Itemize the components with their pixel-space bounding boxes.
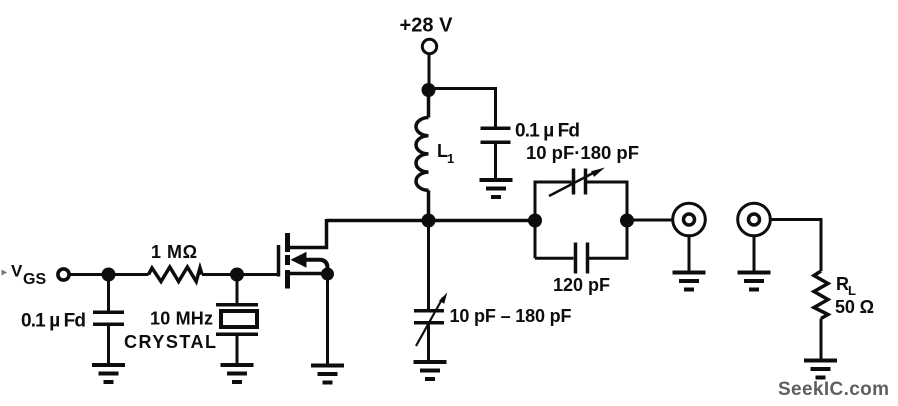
svg-text:SeekIC.com: SeekIC.com: [778, 379, 889, 400]
svg-text:50 Ω: 50 Ω: [835, 297, 874, 317]
ground (bypass capacitor): [480, 180, 513, 197]
crystal Y1 10 MHz: [216, 275, 258, 364]
svg-text:0.1 µ Fd: 0.1 µ Fd: [515, 121, 580, 142]
capacitor 0.1 µFd input: [93, 275, 124, 364]
connector J2 load side: [738, 203, 771, 271]
wire J2 to RL: [770, 220, 821, 272]
watermark SeekIC.com: [778, 379, 889, 400]
connector J1 coax output: [673, 203, 706, 271]
wire node to R1: [109, 273, 149, 276]
svg-text:10 pF·180 pF: 10 pF·180 pF: [526, 142, 639, 163]
label +28 V supply: [400, 15, 454, 37]
node gate junction: [230, 268, 244, 282]
ground (input capacitor): [92, 365, 125, 382]
wire gate lead: [237, 273, 277, 276]
ground (J2): [738, 273, 771, 290]
label 0.1 µFd (bypass): [515, 121, 580, 142]
label VGS input: [11, 262, 46, 289]
label 50 Ω: [835, 297, 874, 317]
capacitor 120 pF: [576, 243, 588, 274]
node input junction: [102, 268, 116, 282]
capacitor 10 pF-180 pF (tune, variable): [414, 293, 447, 361]
node network right junction: [620, 214, 634, 228]
svg-text:10 MHz: 10 MHz: [150, 309, 213, 329]
svg-text:10 pF – 180 pF: 10 pF – 180 pF: [450, 306, 572, 326]
wire source to ground: [326, 274, 329, 364]
node source junction: [321, 268, 334, 281]
terminal VGS: [58, 269, 69, 280]
svg-text:+28 V: +28 V: [400, 15, 454, 37]
input mark: [2, 270, 8, 276]
label 0.1 µFd (input): [21, 311, 86, 332]
node network left junction: [528, 214, 542, 228]
wire input terminal to node: [70, 273, 104, 276]
svg-text:1: 1: [447, 151, 454, 166]
wire main rail: [327, 219, 536, 223]
wire network loop: [535, 182, 627, 258]
resistor RL: [814, 271, 828, 359]
ground (RL): [804, 361, 837, 378]
svg-text:V: V: [11, 262, 23, 281]
resistor R1 1 MΩ: [149, 267, 203, 282]
wire node to bypass capacitor: [429, 89, 496, 128]
label 10 MHz: [150, 309, 213, 329]
terminal +28 V: [422, 39, 436, 53]
transistor Q1 MOSFET: [279, 219, 328, 289]
label 1 MΩ: [151, 242, 197, 262]
wire supply terminal to node: [428, 54, 431, 87]
node drain junction: [422, 214, 436, 228]
capacitor 10 pF-180 pF (output, variable): [549, 168, 605, 197]
svg-text:120 pF: 120 pF: [553, 275, 610, 295]
label L1: [437, 141, 454, 166]
label CRYSTAL: [124, 332, 216, 352]
label 10 pF – 180 pF: [450, 306, 572, 326]
node L1 top junction: [422, 83, 436, 97]
svg-text:0.1 µ Fd: 0.1 µ Fd: [21, 311, 86, 332]
capacitor 0.1 µFd supply bypass: [481, 128, 511, 179]
svg-text:GS: GS: [23, 271, 46, 288]
inductor L1: [416, 90, 429, 221]
ground (crystal): [221, 365, 254, 382]
label RL: [836, 274, 856, 298]
svg-text:1 MΩ: 1 MΩ: [151, 242, 197, 262]
ground (source): [311, 366, 344, 383]
wire R1 to gate node: [202, 273, 232, 276]
ground (tune capacitor): [414, 362, 447, 379]
wire to output connector: [627, 219, 673, 222]
wire drain node to tune capacitor: [427, 221, 430, 310]
ground (J1): [673, 273, 706, 290]
label 120 pF: [553, 275, 610, 295]
svg-text:L: L: [848, 283, 856, 298]
svg-text:CRYSTAL: CRYSTAL: [124, 332, 216, 352]
label 10 pF-180 pF (output): [526, 142, 639, 163]
